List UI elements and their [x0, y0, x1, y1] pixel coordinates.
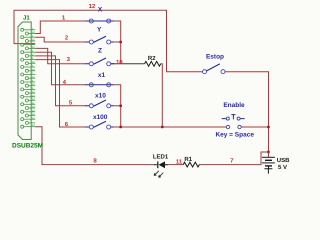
wire: net 10, switch Z output to R2 (dark lead)	[111, 63, 145, 65]
wire 8 (pin to LED1)	[35, 127, 154, 165]
wire: switch x10 output	[114, 105, 121, 107]
switch x10 (open)	[85, 93, 114, 108]
wire: switch x1 output to lower bus	[114, 85, 121, 127]
junction at battery plus	[267, 151, 269, 153]
junction at bus/x10	[120, 105, 122, 107]
connector J1 DSUB25M body	[18, 22, 31, 140]
switch Estop (open)	[203, 54, 226, 74]
resistor R2	[145, 55, 161, 66]
ground	[264, 169, 272, 174]
resistor R1	[183, 156, 199, 167]
svg-text:x100: x100	[93, 114, 108, 121]
svg-text:J1: J1	[23, 15, 30, 22]
junction at R2 drop / row6	[161, 126, 163, 128]
wire 6 (pin to switch x100)	[35, 60, 86, 127]
svg-text:X: X	[98, 7, 103, 14]
LED1	[153, 154, 169, 178]
svg-text:10: 10	[116, 59, 123, 66]
svg-text:DSUB25M: DSUB25M	[12, 143, 43, 150]
svg-text:Key = Space: Key = Space	[215, 131, 254, 138]
wire: row 6 from switch x100 to Enable	[114, 126, 226, 128]
pushbutton Enable	[215, 102, 254, 138]
switch x1 (closed)	[85, 72, 114, 87]
battery USB 5V	[262, 152, 290, 171]
switch X (closed)	[85, 7, 114, 23]
wire 2 (pin to switch Y)	[35, 37, 86, 42]
svg-text:Estop: Estop	[206, 54, 224, 61]
svg-text:11: 11	[176, 159, 183, 166]
wire 7: R1 to battery plus jog	[199, 152, 269, 165]
wire: switch Y output	[114, 41, 121, 43]
connector pins	[21, 28, 36, 128]
svg-text:Y: Y	[97, 26, 102, 33]
wire 5 (pin to switch x10)	[35, 56, 86, 106]
svg-text:12: 12	[89, 3, 96, 10]
wire 3 (pin to switch Z)	[35, 48, 86, 63]
wire: switch X output to bus	[114, 21, 121, 64]
svg-text:Enable: Enable	[223, 102, 245, 109]
wire 1 (pin to switch X)	[35, 21, 86, 34]
LED arrows	[154, 171, 163, 177]
wire 4 (pin to switch x1)	[35, 52, 86, 85]
junction at bus/x100	[120, 126, 122, 128]
svg-text:5 V: 5 V	[278, 164, 287, 171]
svg-text:x1: x1	[98, 72, 106, 79]
svg-text:LED1: LED1	[153, 154, 169, 161]
svg-text:x10: x10	[95, 93, 106, 100]
switch x100 (open)	[85, 114, 114, 129]
wire net 12 (pin to Estop via top)	[14, 10, 202, 71]
svg-text:R2: R2	[148, 55, 156, 62]
connector pin numbers	[32, 27, 35, 127]
wire: Estop output down right bus to battery	[225, 72, 268, 152]
wire: R2 output down to row 6	[161, 64, 163, 127]
junction at bus/Y	[120, 41, 122, 43]
wire: Enable output to right bus	[241, 126, 268, 128]
junction at Enable out / right bus	[267, 126, 269, 128]
switch Z (open)	[85, 48, 114, 66]
svg-text:USB: USB	[277, 157, 290, 164]
svg-text:Z: Z	[98, 48, 102, 55]
svg-text:R1: R1	[184, 156, 192, 163]
switch Y (open)	[85, 26, 114, 44]
wire 11: LED1 to R1	[168, 164, 183, 166]
